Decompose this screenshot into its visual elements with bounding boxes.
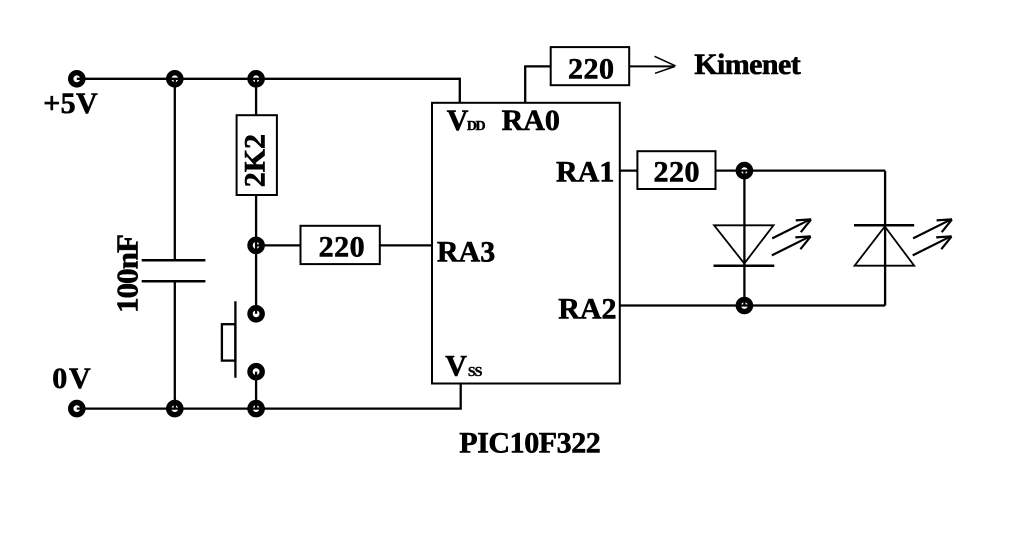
svg-text:100nF: 100nF — [109, 234, 144, 313]
svg-text:DD: DD — [467, 119, 486, 134]
svg-text:SS: SS — [468, 365, 483, 380]
svg-text:RA3: RA3 — [437, 235, 495, 268]
svg-text:RA2: RA2 — [558, 292, 616, 325]
svg-text:0V: 0V — [52, 362, 91, 395]
svg-text:RA1: RA1 — [556, 156, 614, 189]
svg-text:V: V — [445, 350, 467, 383]
svg-text:PIC10F322: PIC10F322 — [459, 427, 601, 460]
svg-text:+5V: +5V — [43, 87, 98, 120]
svg-text:220: 220 — [319, 231, 365, 264]
svg-text:V: V — [447, 104, 469, 137]
svg-text:RA0: RA0 — [502, 104, 560, 137]
svg-text:Kimenet: Kimenet — [694, 48, 801, 81]
svg-text:2K2: 2K2 — [239, 134, 272, 187]
svg-text:220: 220 — [568, 52, 614, 85]
svg-text:220: 220 — [654, 155, 700, 188]
